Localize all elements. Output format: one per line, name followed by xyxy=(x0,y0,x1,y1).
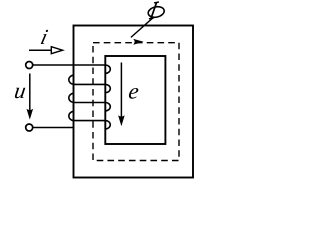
label Phi (flux) xyxy=(147,2,165,19)
core outer edge xyxy=(74,26,194,178)
emf arrow e (down) xyxy=(120,63,122,118)
svg-text:u: u xyxy=(13,78,28,103)
coil turn 4: left arc, crossing wire, right arc xyxy=(69,111,110,129)
terminal (bottom) xyxy=(26,124,33,131)
wire from top terminal + coil turn 1 front arc xyxy=(32,65,110,73)
wire from coil to bottom terminal xyxy=(32,127,74,129)
flux leader line xyxy=(131,18,153,37)
coil turn 2: left arc, crossing wire, right arc xyxy=(69,75,110,93)
terminal (top) xyxy=(26,62,33,69)
svg-text:i: i xyxy=(38,25,50,49)
flux path (dashed) xyxy=(93,43,179,161)
svg-text:e: e xyxy=(127,78,140,103)
flux direction arrowhead xyxy=(133,39,143,45)
current direction open arrow xyxy=(29,49,52,51)
coil turn 3: left arc, crossing wire, right arc xyxy=(69,93,110,111)
voltage arrow u (down) xyxy=(29,74,31,111)
core inner window edge xyxy=(105,56,165,144)
